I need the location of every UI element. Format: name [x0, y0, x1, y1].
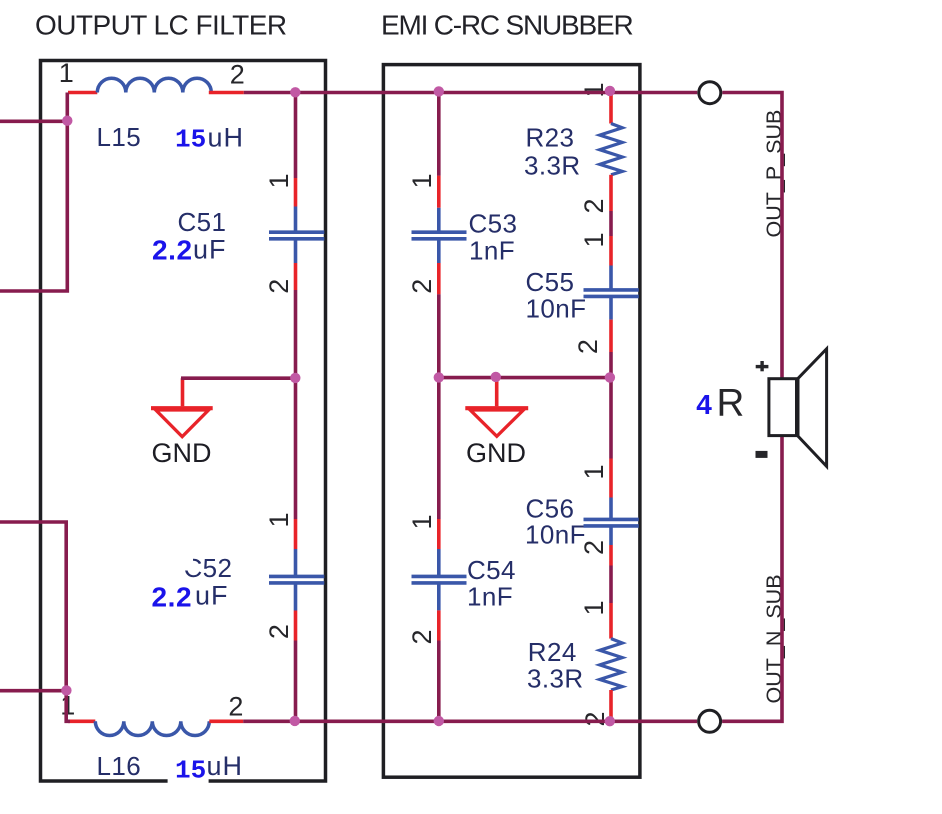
junction node C54 bottom — [434, 716, 444, 726]
wire R23-C55 link — [609, 211, 613, 236]
svg-text:2: 2 — [228, 692, 243, 722]
wire L16 pin1 vertical run — [0, 522, 70, 721]
wire C54 column bottom — [437, 641, 441, 722]
capacitor C56 labels — [525, 494, 586, 550]
wire C56-R24 link — [609, 566, 613, 604]
svg-text:15: 15 — [175, 125, 206, 155]
capacitor C52 — [269, 519, 324, 641]
wire C55 to gnd rail — [609, 352, 613, 378]
resistor R24 — [600, 603, 623, 719]
R23 pin numbers — [579, 82, 609, 213]
svg-text:R24: R24 — [528, 637, 577, 667]
capacitor C55 labels — [526, 267, 587, 324]
wire bottom rail — [243, 719, 697, 723]
svg-text:uF: uF — [195, 581, 229, 611]
junction node gnd symbol tap — [491, 372, 501, 382]
junction node L16 input — [61, 685, 71, 695]
svg-text:L15: L15 — [97, 122, 142, 152]
svg-text:uF: uF — [193, 235, 227, 265]
wire top rail — [244, 91, 698, 95]
svg-text:15: 15 — [175, 755, 206, 785]
svg-text:2: 2 — [264, 279, 294, 294]
svg-text:1: 1 — [407, 173, 437, 188]
svg-text:1: 1 — [407, 514, 437, 529]
svg-text:C53: C53 — [469, 209, 518, 239]
resistor R24 labels — [527, 637, 584, 694]
inductor L15 labels — [97, 122, 245, 155]
frame box EMI C-RC SNUBBER — [383, 65, 640, 778]
speaker minus mark — [756, 451, 768, 458]
white label box behind L16 value (interrupts frame bottom) — [168, 750, 209, 790]
C51 pin numbers — [264, 173, 294, 293]
C54 pin numbers — [407, 514, 437, 644]
L16 pin numbers — [60, 691, 243, 722]
wire gnd rail (snubber) — [439, 376, 611, 380]
inductor L16 — [68, 721, 243, 735]
resistor R23 — [600, 93, 623, 212]
junction node C53/C54 gnd — [434, 372, 444, 382]
wire C53-C54 column middle — [437, 294, 441, 519]
capacitor C52 labels — [152, 553, 233, 613]
svg-text:uH: uH — [207, 751, 244, 781]
speaker plus mark — [756, 361, 769, 371]
svg-text:3.3R: 3.3R — [527, 664, 584, 694]
svg-text:2: 2 — [579, 198, 609, 213]
svg-text:1: 1 — [264, 512, 294, 527]
capacitor C51 — [269, 178, 324, 290]
svg-text:1: 1 — [264, 173, 294, 188]
svg-text:L16: L16 — [97, 751, 142, 781]
frame box OUTPUT LC FILTER — [41, 61, 326, 782]
svg-text:GND: GND — [466, 438, 526, 468]
svg-text:1: 1 — [579, 600, 609, 615]
svg-text:1: 1 — [579, 232, 609, 247]
wire C53 column top — [437, 93, 441, 176]
capacitor C53 labels — [469, 209, 518, 266]
svg-text:1: 1 — [59, 58, 74, 88]
svg-text:1nF: 1nF — [469, 235, 515, 265]
junction node L15 input — [62, 116, 72, 126]
inductor L16 labels — [97, 751, 244, 785]
junction node R24 bottom — [605, 716, 615, 726]
wire bottom rail right of terminal, to speaker - — [722, 437, 782, 722]
C52 pin numbers — [264, 512, 294, 639]
C53 pin numbers — [407, 173, 437, 293]
speaker LS1 body — [769, 379, 797, 436]
capacitor C51 labels — [152, 207, 227, 266]
svg-text:C55: C55 — [526, 267, 575, 297]
capacitor C55 — [584, 236, 639, 352]
svg-text:2: 2 — [230, 60, 245, 90]
terminal pad OUT N — [699, 710, 721, 732]
white box occluding part of C52 name — [157, 547, 193, 571]
wire gnd spur (LC filter) — [181, 376, 296, 380]
svg-text:2: 2 — [407, 279, 437, 294]
svg-text:uH: uH — [208, 123, 245, 153]
svg-text:1: 1 — [579, 82, 609, 97]
wire top rail right of terminal, to speaker + — [722, 93, 782, 379]
svg-text:OUTPUT LC FILTER: OUTPUT LC FILTER — [35, 10, 287, 41]
inductor L15 — [68, 78, 244, 92]
ground symbol (snubber) — [465, 378, 528, 437]
svg-text:1: 1 — [579, 464, 609, 479]
junction node C51/C52 gnd — [290, 373, 300, 383]
wire C52 column bottom — [294, 641, 298, 722]
svg-text:R23: R23 — [526, 123, 575, 153]
junction node C51 top — [290, 87, 300, 97]
C56 pin numbers — [579, 464, 609, 555]
svg-text:10nF: 10nF — [526, 294, 587, 324]
speaker load value 4R — [696, 382, 744, 425]
svg-text:C51: C51 — [178, 207, 227, 237]
svg-text:C54: C54 — [467, 555, 516, 585]
svg-text:R: R — [717, 382, 745, 425]
capacitor C56 — [584, 459, 639, 566]
terminal pad OUT P — [699, 82, 721, 104]
svg-text:2.2: 2.2 — [152, 235, 193, 266]
wire L15 pin1 vertical run — [0, 93, 67, 292]
junction node R23 top — [605, 86, 615, 96]
svg-text:1nF: 1nF — [467, 582, 513, 612]
wire gnd rail to C56 — [609, 378, 613, 459]
svg-text:3.3R: 3.3R — [524, 150, 581, 180]
capacitor C53 — [412, 176, 467, 295]
L15 pin numbers — [59, 58, 245, 90]
junction node C52 bottom — [290, 716, 300, 726]
svg-text:2: 2 — [264, 624, 294, 639]
svg-text:EMI C-RC SNUBBER: EMI C-RC SNUBBER — [381, 10, 633, 41]
svg-text:GND: GND — [152, 438, 212, 468]
wire left input bottom — [0, 689, 66, 693]
junction node C53 top — [434, 86, 444, 96]
svg-text:2: 2 — [573, 339, 603, 354]
wire C51-C52 column middle — [294, 290, 298, 519]
svg-text:10nF: 10nF — [525, 520, 586, 550]
wire C51 column top — [294, 93, 298, 179]
capacitor C54 — [412, 519, 467, 641]
svg-text:4: 4 — [696, 389, 712, 420]
R24 pin numbers — [579, 600, 610, 726]
junction node C55/C56 gnd — [605, 372, 615, 382]
capacitor C54 labels — [467, 555, 516, 612]
wire left input top — [0, 120, 67, 124]
svg-text:2: 2 — [407, 629, 437, 644]
speaker LS1 horn — [798, 349, 827, 467]
resistor R23 labels — [524, 123, 581, 181]
svg-text:2.2: 2.2 — [152, 582, 193, 613]
C55 pin numbers — [573, 232, 609, 354]
svg-text:2: 2 — [579, 540, 609, 555]
ground symbol (LC filter) — [151, 378, 213, 436]
